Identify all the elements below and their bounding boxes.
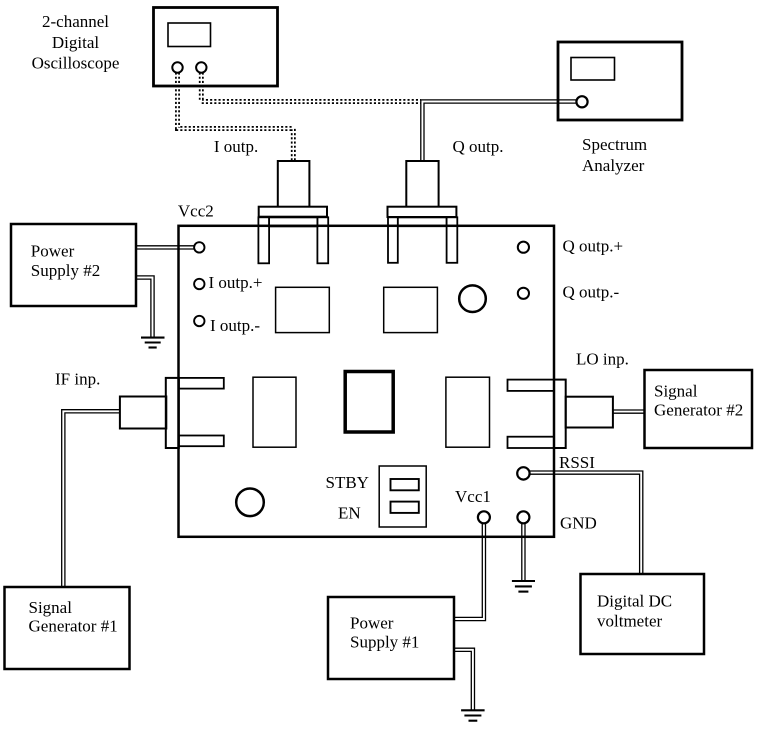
- svg-text:voltmeter: voltmeter: [597, 612, 662, 631]
- I outp.+ pin: [194, 279, 204, 289]
- svg-text:Oscilloscope: Oscilloscope: [32, 54, 120, 73]
- ground symbol below GND pin: [512, 581, 535, 592]
- LO input SMA connector flange: [554, 380, 566, 448]
- svg-text:Q outp.: Q outp.: [453, 137, 504, 156]
- Q outp.- pin: [518, 288, 529, 299]
- wire power supply 1 to ground: [454, 650, 473, 710]
- svg-text:I outp.: I outp.: [214, 137, 258, 156]
- wire signal generator 1 to IF input: [63, 411, 120, 587]
- IC U4: [446, 377, 490, 447]
- LO input SMA connector body: [566, 397, 613, 428]
- wire RSSI to DC voltmeter: [529, 473, 641, 574]
- Q output SMA connector right leg: [447, 217, 458, 262]
- svg-text:Analyzer: Analyzer: [582, 156, 645, 175]
- svg-text:2-channel: 2-channel: [42, 12, 109, 31]
- DUT chip: [345, 372, 393, 433]
- wire signal generator 2 to LO input: [612, 409, 645, 414]
- ground symbol below power supply 1: [461, 710, 485, 720]
- IF input SMA connector bottom leg: [179, 436, 224, 447]
- IC U3: [253, 377, 296, 447]
- Q output SMA connector flange: [388, 207, 457, 217]
- svg-text:I outp.-: I outp.-: [210, 316, 260, 335]
- digital DC voltmeter box: [581, 574, 705, 654]
- svg-text:Supply #2: Supply #2: [31, 261, 100, 280]
- IC U1: [276, 287, 330, 332]
- svg-text:Signal: Signal: [654, 382, 698, 401]
- wire Q-output to oscilloscope ch2 (dotted coax): [201, 73, 421, 102]
- svg-text:Power: Power: [350, 613, 394, 632]
- wire power supply 2 to Vcc2: [136, 245, 195, 250]
- spectrum analyzer input connector: [576, 96, 587, 107]
- svg-text:GND: GND: [560, 514, 597, 533]
- svg-text:RSSI: RSSI: [559, 453, 595, 472]
- mounting hole bottom left: [236, 489, 264, 517]
- I output SMA connector body: [278, 161, 310, 207]
- signal generator 2 box: [645, 370, 753, 448]
- I output SMA connector flange: [259, 207, 327, 217]
- signal generator 1 box: [5, 587, 130, 669]
- LO input SMA connector bottom leg: [508, 437, 555, 448]
- Vcc1 pin: [478, 511, 490, 523]
- oscilloscope screen: [168, 23, 211, 47]
- Q output SMA connector base: [398, 218, 447, 227]
- svg-text:Power: Power: [31, 242, 75, 261]
- IF input SMA connector body: [120, 397, 166, 429]
- RSSI pin: [517, 467, 529, 479]
- svg-text:Q outp.+: Q outp.+: [563, 237, 624, 256]
- I output SMA connector left leg: [258, 217, 269, 263]
- mounting hole top right: [459, 285, 486, 312]
- STBY/EN jumper block: [379, 466, 426, 527]
- Q output SMA connector body: [406, 161, 438, 207]
- svg-text:Spectrum: Spectrum: [582, 135, 647, 154]
- svg-text:Digital DC: Digital DC: [597, 591, 672, 610]
- STBY jumper: [391, 479, 419, 490]
- wire Vcc1 to power supply 1: [454, 523, 484, 620]
- wire Q-output to spectrum analyzer (double line): [422, 102, 577, 161]
- IC U2: [384, 287, 438, 332]
- Vcc2 pin: [194, 242, 204, 252]
- svg-text:I outp.+: I outp.+: [209, 273, 263, 292]
- I outp.- pin: [194, 316, 204, 326]
- GND pin: [517, 511, 529, 523]
- spectrum analyzer screen: [571, 58, 615, 81]
- svg-text:IF inp.: IF inp.: [55, 370, 100, 389]
- spectrum analyzer box: [558, 42, 682, 120]
- svg-text:Vcc2: Vcc2: [178, 202, 214, 221]
- power supply 2 box: [11, 224, 136, 306]
- svg-text:Generator #2: Generator #2: [654, 401, 743, 420]
- svg-text:STBY: STBY: [326, 473, 369, 492]
- oscilloscope ch2 connector: [196, 62, 206, 72]
- I output SMA connector right leg: [317, 217, 328, 263]
- svg-text:Digital: Digital: [52, 33, 99, 52]
- svg-text:LO inp.: LO inp.: [576, 350, 629, 369]
- wire power supply 2 to ground: [136, 278, 153, 338]
- I output SMA connector base: [269, 218, 317, 227]
- svg-text:Supply #1: Supply #1: [350, 632, 419, 651]
- EN jumper: [391, 502, 419, 513]
- evaluation board outline: [179, 226, 555, 537]
- ground symbol below power supply 2: [141, 338, 165, 348]
- wire I-output to oscilloscope ch1 (dotted coax): [178, 73, 294, 161]
- LO input SMA connector top leg: [508, 380, 555, 391]
- Q output SMA connector left leg: [388, 217, 398, 262]
- Q outp.+ pin: [518, 242, 529, 253]
- svg-text:Q outp.-: Q outp.-: [563, 282, 620, 301]
- oscilloscope box: [154, 8, 278, 87]
- power supply 1 box: [328, 597, 454, 679]
- svg-text:Signal: Signal: [29, 598, 73, 617]
- svg-text:Generator #1: Generator #1: [29, 616, 118, 635]
- svg-text:EN: EN: [338, 504, 361, 523]
- svg-text:Vcc1: Vcc1: [455, 487, 491, 506]
- wire GND pin to ground: [521, 523, 526, 581]
- IF input SMA connector flange: [166, 378, 179, 448]
- oscilloscope ch1 connector: [172, 62, 182, 72]
- IF input SMA connector top leg: [179, 378, 224, 389]
